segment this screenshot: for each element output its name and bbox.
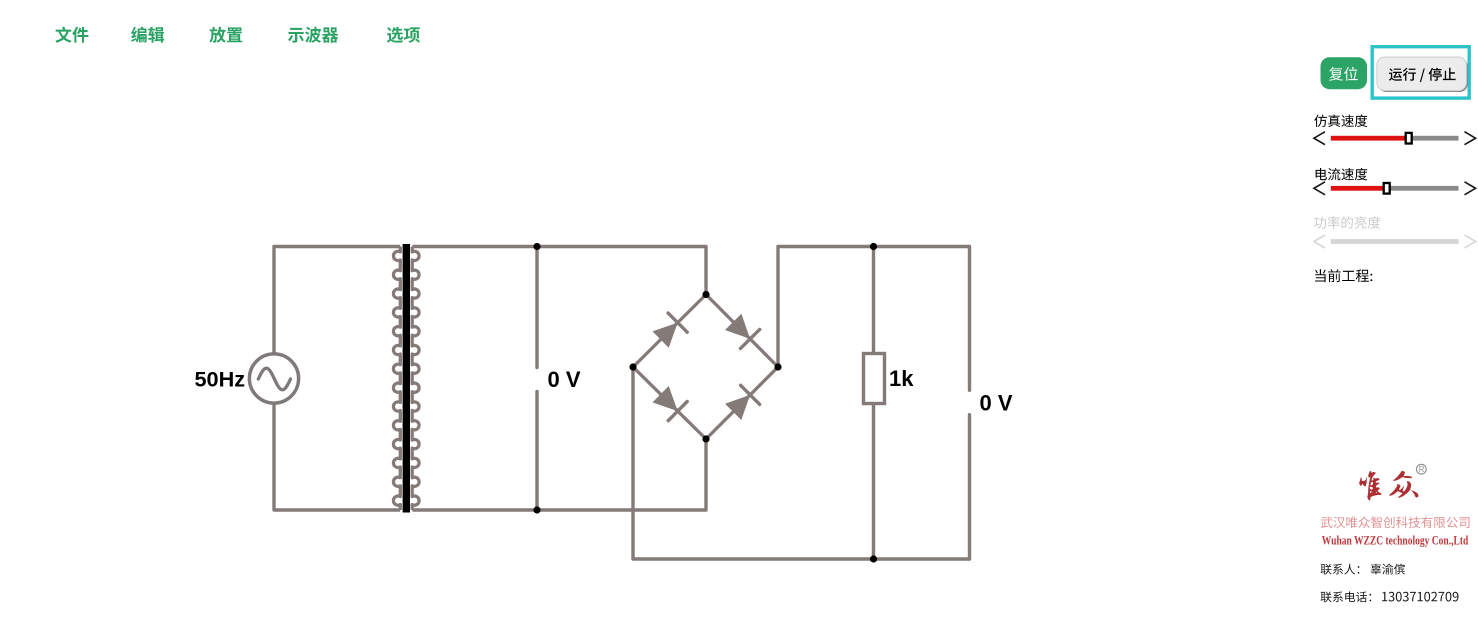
menu File 文件 — [55, 27, 88, 43]
svg-text:1k: 1k — [889, 366, 914, 391]
diode D2 bridge top-right edge — [706, 295, 778, 368]
logo WZZC 唯众 — [1359, 471, 1418, 501]
slider current speed — [1314, 182, 1476, 195]
menu Place 放置 — [209, 27, 242, 43]
slider power brightness (disabled) — [1314, 235, 1476, 248]
menu Scope 示波器 — [288, 27, 338, 43]
menu Edit 编辑 — [131, 27, 164, 43]
resistor R1 lead bottom — [872, 404, 875, 560]
voltmeter VM1 wire lower — [535, 392, 538, 511]
svg-text:0 V: 0 V — [980, 391, 1013, 416]
wire bridge right vertex up and to output top — [778, 247, 970, 368]
node bridge top vertex — [702, 291, 709, 298]
transformer T1 secondary coil — [412, 247, 419, 511]
transformer T1 primary coil — [393, 247, 400, 511]
svg-text:Wuhan WZZC technology Con.,Ltd: Wuhan WZZC technology Con.,Ltd — [1322, 533, 1469, 547]
voltmeter VM2 wire lower — [968, 415, 971, 559]
node VM1 bottom junction — [533, 506, 540, 513]
resistor R1 lead top — [872, 247, 875, 354]
node bridge bottom vertex — [702, 435, 709, 442]
diode D4 bridge bottom-right edge — [706, 367, 778, 439]
AC voltage source V1 50Hz — [249, 354, 298, 403]
logo registered mark — [1416, 464, 1426, 474]
diode D3 bridge left-bottom edge — [633, 367, 706, 439]
node bridge right vertex — [774, 363, 781, 370]
node R1 bottom junction — [870, 555, 877, 562]
wire secondary top to bridge top vertex — [412, 247, 706, 295]
node bridge left vertex — [629, 363, 636, 370]
label 当前工程: (current project) — [1315, 269, 1372, 282]
menu Options 选项 — [387, 27, 420, 43]
svg-text:50Hz: 50Hz — [195, 367, 246, 392]
wire secondary bottom to bridge bottom vertex — [412, 439, 706, 510]
button Reset 复位 — [1321, 57, 1368, 89]
transformer T1 core — [403, 244, 410, 513]
resistor R1 body — [864, 354, 885, 404]
slider simulation speed — [1314, 132, 1476, 145]
voltmeter VM2 wire upper — [968, 247, 971, 391]
button Run/Stop highlight frame — [1372, 47, 1469, 98]
svg-text:0 V: 0 V — [548, 367, 581, 392]
label 电流速度 (current speed) — [1316, 168, 1368, 181]
node R1 top junction — [870, 243, 877, 250]
button Run/Stop 运行/停止 — [1377, 57, 1468, 92]
label 仿真速度 (simulation speed) — [1314, 115, 1367, 128]
company name 武汉唯众智创科技有限公司 — [1321, 516, 1470, 528]
wire bridge left vertex down and output bottom — [633, 367, 970, 559]
svg-text:R: R — [1419, 465, 1425, 474]
label 功率的亮度 (power brightness, disabled) — [1314, 216, 1381, 229]
diode D1 bridge left-top edge — [633, 295, 706, 368]
node VM1 top junction — [533, 243, 540, 250]
voltmeter VM1 wire upper — [535, 247, 538, 368]
contact phone 联系电话 — [1321, 591, 1459, 602]
wire primary loop (left: AC source loop) — [274, 247, 400, 511]
contact person 联系人 — [1321, 564, 1405, 575]
